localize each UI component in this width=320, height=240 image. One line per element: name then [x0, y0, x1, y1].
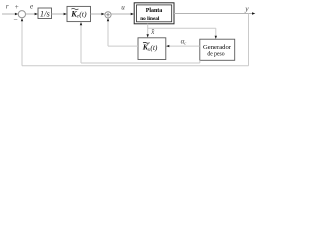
wire weight line horizontal: [81, 62, 200, 64]
summing junction S2: [105, 12, 111, 18]
node arrowhead into Kx right edge: [166, 45, 169, 47]
wire u from S2 to plant: [111, 13, 131, 15]
node arrowhead into plant: [131, 13, 134, 15]
svg-text:1/s: 1/s: [40, 8, 51, 18]
wire e from S1 to integrator: [26, 13, 36, 15]
node arrowhead up into S2 bottom: [107, 18, 109, 21]
wire from Ke to S2: [91, 13, 103, 15]
wire y output: [174, 13, 253, 15]
wire Kx output up to S2: [107, 20, 109, 46]
summing junction S1: [18, 11, 25, 18]
block gain Ke(t): [67, 6, 91, 21]
svg-text:r: r: [6, 3, 9, 11]
wire x state tap down from plant: [147, 24, 149, 36]
node arrowhead into Ke: [64, 13, 67, 15]
wire r input: [2, 13, 17, 15]
wire Kx output left: [108, 45, 138, 47]
svg-text:(t): (t): [150, 43, 158, 52]
block integrator 1/s: [38, 8, 52, 19]
block Generador de peso: [200, 39, 235, 60]
block Planta no lineal (double border): [134, 3, 174, 24]
node arrowhead down into Kx: [147, 34, 149, 37]
wire x branch to weight generator: [148, 27, 216, 29]
svg-text:−: −: [13, 15, 17, 24]
svg-text:de peso: de peso: [207, 51, 224, 58]
label plus sign inside S2: [106, 13, 110, 17]
node arrowhead into weight generator: [215, 36, 217, 39]
svg-text:u: u: [121, 3, 125, 11]
svg-text:(t): (t): [79, 10, 87, 19]
node arrowhead into S2: [101, 13, 104, 15]
node arrowhead into 1/s: [35, 13, 38, 15]
svg-text:+: +: [15, 3, 19, 11]
node r arrowhead into summing junction S1: [15, 13, 18, 15]
wire from 1/s to Ke: [52, 13, 65, 15]
svg-text:y: y: [244, 4, 249, 13]
wire alpha from generator to Kx: [169, 45, 200, 47]
svg-text:no lineal: no lineal: [140, 16, 160, 22]
node arrowhead up into S1 minus input: [21, 18, 23, 21]
wire weight line up into Ke bottom: [80, 24, 82, 63]
wire down into weight generator: [215, 28, 217, 37]
node arrowhead up into Ke bottom: [80, 22, 82, 25]
wire feedback up into S1: [21, 20, 23, 66]
node output arrowhead: [252, 12, 255, 14]
wire feedback bottom bus: [22, 65, 249, 67]
svg-text:Planta: Planta: [146, 7, 163, 14]
block gain Kx(t): [138, 38, 166, 60]
wire feedback tap down from y: [248, 14, 250, 66]
wire weight line from generator bottom corner: [199, 60, 201, 63]
